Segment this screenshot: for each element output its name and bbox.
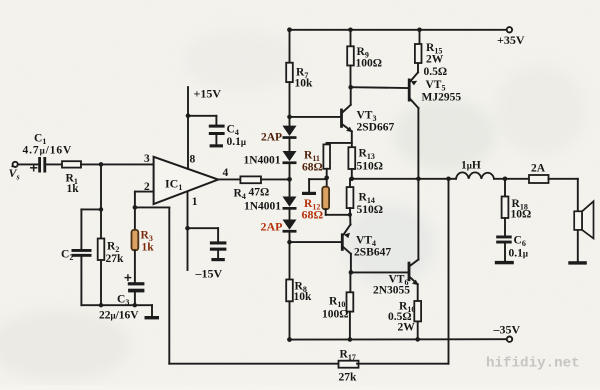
label C3 22u/16V [99, 294, 139, 322]
resistor R4 47ohm [240, 176, 261, 183]
wire C2 to bottom wire [80, 257, 82, 305]
svg-text:100Ω: 100Ω [356, 58, 382, 70]
node R2 bottom junction [99, 303, 103, 307]
terminal +35V [507, 27, 512, 32]
resistor R10 100ohm [347, 292, 354, 311]
terminal -35V [507, 337, 512, 342]
diode VD4 2AP [283, 220, 297, 233]
+15V supply wire pin8 [187, 87, 189, 169]
capacitor C4 0.1u [209, 125, 225, 135]
wire VT6 base [351, 271, 408, 273]
ground (speaker) [568, 261, 587, 264]
svg-text:0.5Ω: 0.5Ω [424, 66, 448, 78]
wire output to R18 [504, 179, 506, 197]
svg-text:2SB647: 2SB647 [354, 247, 391, 259]
wire VT4 collector down [350, 254, 352, 273]
wire op-amp pin2 horizontal [135, 191, 154, 193]
wire R11 stem [326, 143, 328, 145]
diode VD3 1N4001 [283, 197, 297, 210]
pin number 1 [192, 196, 198, 208]
svg-text:2AP: 2AP [261, 220, 283, 234]
wire ground stub vertical [308, 179, 310, 192]
wire R18 to C6 [504, 218, 506, 236]
wire VT5 base [351, 86, 408, 89]
node collectors output junction [416, 177, 421, 182]
capacitor C2 [72, 249, 92, 257]
wire R17 to feedback column [357, 363, 449, 365]
resistor R9 100ohm [347, 46, 354, 65]
wire output rail [352, 178, 456, 180]
node R18 tap [503, 177, 508, 182]
wire VT6 collector to output rail [417, 179, 419, 260]
transistor VT6 2N3055 [408, 262, 411, 281]
node output to diode chain [287, 177, 292, 182]
svg-text:68Ω: 68Ω [302, 162, 323, 174]
svg-text:1N4001: 1N4001 [244, 155, 281, 167]
label C1 [34, 133, 46, 147]
ground (signal) [151, 305, 153, 316]
capacitor C5 bypass [210, 241, 227, 250]
wire C3 to bottom wire [134, 292, 136, 305]
node C3 bottom junction [133, 303, 137, 307]
wire feedback bottom to R17 [169, 363, 337, 365]
wire VD4 to R8 [289, 233, 291, 280]
node rail R15 [417, 28, 422, 33]
wire op-amp output to R4 [218, 178, 240, 180]
resistor R11 68ohm [323, 144, 330, 168]
pin number 3 [144, 153, 150, 165]
svg-text:47Ω: 47Ω [249, 187, 270, 199]
wire R8 to bottom rail [289, 301, 291, 339]
wire R10 to bottom rail [349, 312, 351, 340]
node pin2 feedback junction [133, 205, 138, 210]
wire C1 to R1 [46, 163, 62, 165]
svg-text:0.1μ: 0.1μ [227, 136, 246, 148]
wire rail to R9 [350, 30, 352, 47]
svg-text:hifidiy.net: hifidiy.net [486, 356, 580, 372]
input terminal Vs [13, 162, 18, 167]
inductor 1uH [456, 172, 494, 178]
svg-text:2N3055: 2N3055 [373, 285, 410, 297]
transistor VT5 MJ2955 [408, 79, 411, 102]
svg-text:1k: 1k [142, 242, 155, 254]
svg-text:3: 3 [144, 153, 150, 165]
svg-text:22μ/16V: 22μ/16V [99, 310, 139, 322]
wire C5 stem [217, 228, 219, 241]
resistor R15 0.5ohm 2W [415, 44, 422, 63]
label 4.7u/16V [23, 145, 73, 157]
resistor R8 10k [286, 280, 293, 302]
svg-text:1N4001: 1N4001 [244, 201, 281, 213]
node rail R10 [348, 337, 353, 342]
svg-text:10k: 10k [294, 291, 313, 303]
bottom signal wire [81, 304, 152, 306]
wire R3 to C3 [134, 250, 136, 282]
node C2 tap on R2 wire [99, 207, 103, 211]
resistor R7 10k [286, 63, 293, 82]
wire bottom -35V rail [290, 338, 507, 340]
wire rail to R15 [419, 30, 421, 44]
wire R14 to VT4 emitter [349, 208, 351, 225]
node bypass tap [185, 226, 190, 231]
svg-text:–15V: –15V [195, 267, 223, 281]
speaker [574, 211, 582, 230]
pin number 4 [223, 167, 229, 179]
wire VD2 to VD3 [289, 164, 291, 196]
wire to feedback column [135, 206, 169, 208]
node feedback tap [446, 177, 451, 182]
wire output rail to R14 [349, 179, 351, 187]
wire VT5 emitter to R15 [417, 63, 419, 72]
node rail R9 [348, 28, 353, 33]
wire R9 to VT3 collector node [350, 66, 352, 88]
wire speaker feed down [577, 179, 579, 261]
wire R7 to diode VD1 [289, 82, 291, 126]
wire R4 to diode chain [261, 178, 290, 180]
node R13-R14 output junction [350, 177, 355, 182]
wire C2 branch vertical [80, 209, 82, 249]
wire C2 branch horizontal [81, 208, 101, 210]
label Vs [9, 165, 20, 181]
svg-text:2SD667: 2SD667 [357, 122, 395, 134]
wire C5 to ground [217, 251, 219, 258]
wire R11 to R12 [326, 169, 328, 187]
resistor R12 68ohm (highlighted) [322, 187, 329, 210]
node R11-R12 junction [324, 176, 329, 181]
node VT4 base junction [287, 240, 292, 245]
svg-text:+15V: +15V [194, 87, 222, 101]
wire ground stub horizontal [309, 178, 327, 180]
ground (C5) [211, 258, 224, 261]
wire R1 to op-amp pin3 [81, 163, 154, 165]
svg-text:0.1μ: 0.1μ [509, 248, 528, 260]
svg-text:+35V: +35V [497, 33, 525, 47]
svg-text:27k: 27k [339, 372, 358, 384]
wire feedback vertical left [168, 207, 170, 363]
resistor R3 1k (highlighted) [132, 230, 139, 250]
wire VT5 collector to output rail [417, 108, 419, 179]
svg-text:10k: 10k [295, 78, 314, 90]
wire R11 branch from VT3 emitter [327, 142, 352, 144]
op-amp IC1 [154, 157, 219, 204]
transistor VT4 2SB647 [341, 233, 344, 250]
wire R16 to bottom rail [417, 321, 419, 339]
svg-text:–35V: –35V [493, 323, 521, 337]
pin number 2 [144, 181, 150, 193]
resistor R17 27k [339, 361, 359, 368]
wire C6 to ground [504, 244, 506, 261]
transistor VT3 2SD667 [340, 109, 343, 128]
ground (C4) [210, 144, 223, 147]
wire to bypass cap [188, 227, 219, 229]
wire VT6 emitter to R16 [417, 284, 419, 301]
svg-text:2: 2 [144, 181, 150, 193]
svg-text:510Ω: 510Ω [357, 161, 383, 173]
ground (C6) [495, 261, 514, 264]
pin number 8 [190, 153, 196, 165]
resistor R1 1k [62, 161, 81, 167]
fuse 2A [529, 175, 549, 183]
svg-text:2AP: 2AP [261, 132, 282, 144]
resistor R16 0.5ohm 2W [414, 301, 421, 321]
wire R13 to output rail [351, 169, 353, 179]
wire node down through R2 [100, 164, 102, 238]
node input junction [99, 162, 104, 167]
capacitor C6 0.1u [496, 236, 512, 244]
svg-text:4.7μ/16V: 4.7μ/16V [23, 145, 73, 157]
wire C4 to ground [215, 135, 217, 144]
svg-text:100Ω: 100Ω [322, 309, 348, 321]
svg-text:2W: 2W [426, 54, 444, 66]
node VT3 base junction [287, 115, 292, 120]
wire top +35V rail [290, 29, 507, 31]
wire to C4 [188, 115, 216, 117]
wire VT4 base [290, 241, 341, 243]
wire inductor to fuse [494, 178, 529, 180]
wire input to C1 [18, 163, 38, 165]
wire VT4 collector node to R10 [349, 272, 351, 292]
wire VT3 emitter to R13 [351, 131, 353, 147]
svg-text:4: 4 [223, 167, 229, 179]
wire fuse to speaker [549, 178, 578, 180]
svg-text:27k: 27k [106, 253, 125, 265]
wire R12 bottom stem [325, 209, 327, 215]
node VT4 collector / VT6 base [349, 270, 354, 275]
capacitor C3 electrolytic [128, 282, 145, 292]
wire rail to R7 [289, 30, 291, 63]
wire VD1 to VD2 [289, 139, 291, 151]
resistor R18 10ohm [502, 197, 509, 219]
wire C4 stem [215, 116, 217, 125]
wire VT3 base [290, 116, 341, 118]
node rail corner R7 [287, 27, 292, 32]
svg-text:68Ω: 68Ω [302, 208, 324, 222]
node C4 tap [186, 114, 191, 119]
ground at R11-R12 junction [302, 192, 316, 195]
node rail R16 [415, 337, 420, 342]
node R12 VT4 emitter junction [348, 213, 352, 217]
wire VT3 collector up [350, 87, 352, 105]
-15V supply wire pin1 [187, 192, 189, 270]
svg-text:10Ω: 10Ω [511, 209, 532, 221]
node rail corner R8 [287, 337, 292, 342]
capacitor C1 4.7u/16V electrolytic [38, 157, 46, 173]
svg-text:2W: 2W [398, 322, 416, 334]
diode VD1 2AP [283, 126, 297, 139]
resistor R13 510ohm [348, 147, 355, 169]
wire pin2 node down to R3 [134, 192, 136, 230]
wire R12 to VT4 emitter line [326, 214, 350, 216]
wire VD3 to VD4 [289, 210, 291, 220]
diode VD2 1N4001 [283, 151, 297, 164]
svg-text:2A: 2A [531, 163, 546, 175]
svg-text:8: 8 [190, 153, 196, 165]
node VT3 collector / VT5 base [348, 85, 353, 90]
svg-text:MJ2955: MJ2955 [422, 92, 462, 104]
wire feedback vertical to output [448, 179, 450, 364]
svg-text:1: 1 [192, 196, 198, 208]
resistor R14 510ohm [347, 187, 354, 208]
wire R2 to bottom wire [100, 260, 102, 305]
svg-text:510Ω: 510Ω [357, 204, 383, 216]
resistor R2 27k [98, 239, 105, 261]
svg-text:1μH: 1μH [461, 160, 481, 172]
svg-text:1k: 1k [67, 183, 80, 195]
